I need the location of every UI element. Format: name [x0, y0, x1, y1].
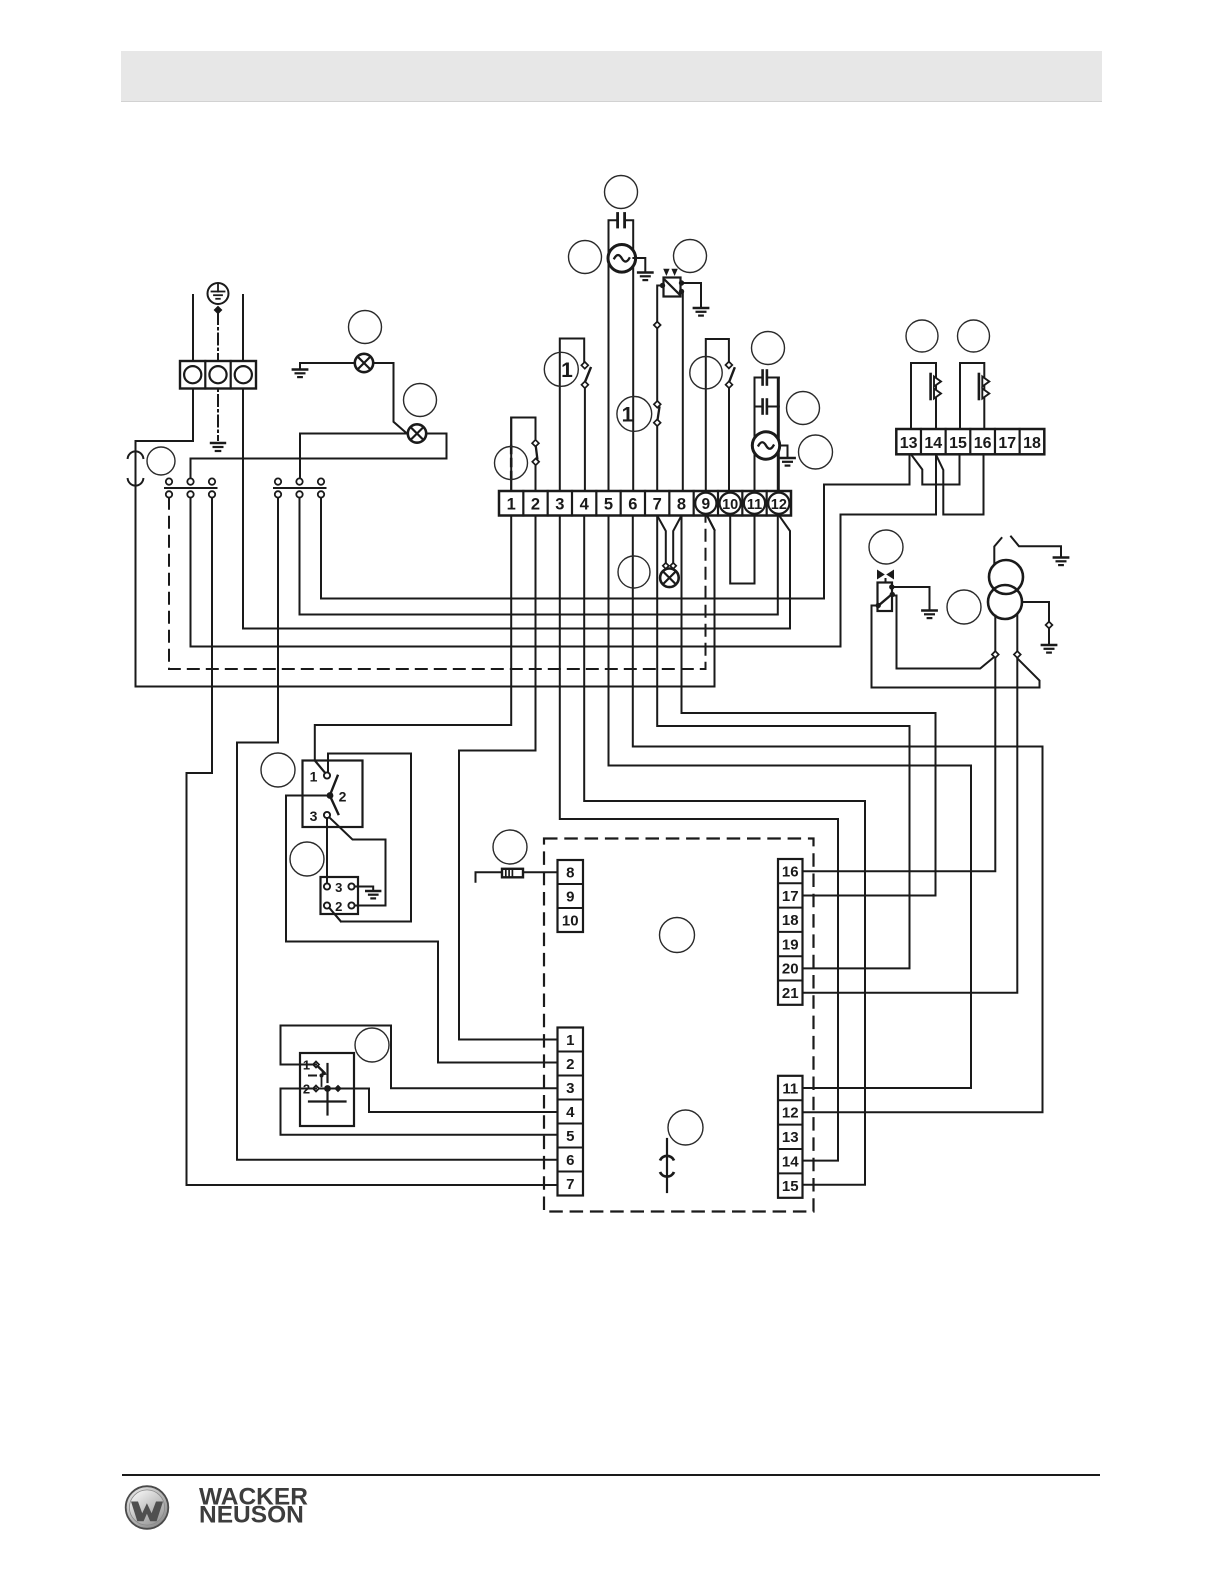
svg-text:18: 18 — [782, 912, 799, 929]
svg-text:8: 8 — [566, 864, 574, 881]
svg-text:12: 12 — [782, 1105, 799, 1122]
svg-text:3: 3 — [555, 496, 564, 514]
svg-text:5: 5 — [566, 1128, 574, 1145]
svg-text:17: 17 — [998, 435, 1016, 452]
svg-text:3: 3 — [335, 880, 342, 895]
svg-text:10: 10 — [722, 497, 738, 513]
svg-text:16: 16 — [974, 435, 992, 452]
svg-text:1: 1 — [622, 403, 634, 426]
svg-text:10: 10 — [562, 912, 579, 929]
svg-text:7: 7 — [566, 1176, 574, 1193]
svg-text:9: 9 — [566, 888, 574, 905]
svg-text:11: 11 — [782, 1080, 798, 1097]
svg-text:6: 6 — [566, 1152, 574, 1169]
svg-text:4: 4 — [566, 1104, 575, 1121]
svg-text:2: 2 — [566, 1056, 574, 1073]
svg-text:2: 2 — [335, 899, 342, 914]
svg-text:3: 3 — [566, 1080, 574, 1097]
svg-text:11: 11 — [747, 497, 762, 513]
svg-text:13: 13 — [782, 1129, 799, 1146]
svg-text:1: 1 — [561, 359, 573, 382]
svg-text:8: 8 — [677, 496, 686, 514]
svg-text:19: 19 — [782, 936, 799, 953]
svg-text:6: 6 — [628, 496, 637, 514]
svg-text:4: 4 — [580, 496, 590, 514]
svg-text:16: 16 — [782, 863, 799, 880]
svg-text:12: 12 — [771, 497, 787, 513]
svg-text:1: 1 — [507, 496, 516, 514]
svg-text:NEUSON: NEUSON — [199, 1502, 304, 1529]
svg-text:21: 21 — [782, 985, 799, 1002]
svg-text:7: 7 — [653, 496, 662, 514]
svg-text:15: 15 — [782, 1178, 799, 1195]
svg-text:20: 20 — [782, 961, 799, 978]
svg-text:18: 18 — [1023, 435, 1041, 452]
svg-text:9: 9 — [702, 496, 711, 513]
svg-text:13: 13 — [900, 435, 918, 452]
svg-text:17: 17 — [782, 888, 799, 905]
svg-text:2: 2 — [339, 789, 347, 805]
svg-text:1: 1 — [310, 769, 318, 785]
svg-text:15: 15 — [949, 435, 967, 452]
svg-text:3: 3 — [310, 808, 318, 824]
svg-text:5: 5 — [604, 496, 613, 514]
svg-text:1: 1 — [566, 1032, 574, 1049]
svg-text:14: 14 — [924, 435, 942, 452]
svg-text:14: 14 — [782, 1154, 799, 1171]
svg-text:2: 2 — [531, 496, 540, 514]
